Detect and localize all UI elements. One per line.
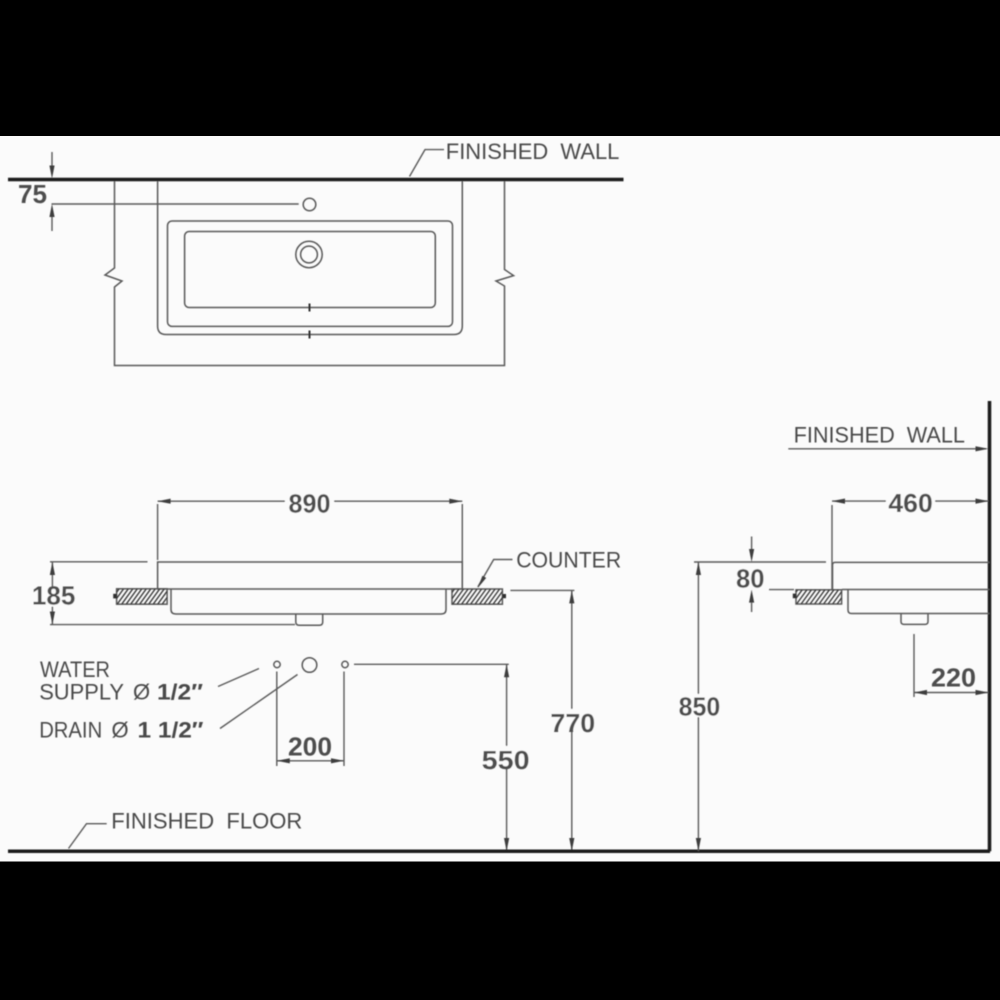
basin bowl (front) [171,590,446,615]
counter section hatch left (front) [113,589,167,604]
svg-text:75: 75 [18,179,47,209]
dimension 220 (drain offset from wall) [914,663,989,696]
dimension 185 (rim to drain depth) [29,562,295,625]
basin bowl edge (plan) [185,232,436,308]
svg-text:460: 460 [888,488,932,518]
sink profile (side) [833,562,990,613]
drain stub (front) [296,614,323,625]
water supply hole right (front) [342,661,348,667]
label WATER SUPPLY with leader [39,657,259,705]
label FINISHED WALL (plan) with leader [410,139,620,177]
sink rim slab (front) [158,562,463,589]
label DRAIN with leader [39,675,297,743]
label COUNTER with leader [478,548,621,589]
svg-text:SUPPLY: SUPPLY [39,680,124,705]
counter section hatch (side) [793,590,842,604]
letterbox bottom bar [0,862,1000,1000]
svg-text:FINISHED WALL: FINISHED WALL [446,139,620,164]
svg-text:550: 550 [482,745,530,775]
finished wall line (plan) [8,178,624,182]
svg-text:COUNTER: COUNTER [516,548,621,573]
dimension 550 (supply height) [354,664,531,851]
svg-text:FINISHED WALL: FINISHED WALL [794,422,965,447]
dimension 200 (supply spacing) [277,672,344,767]
svg-text:200: 200 [288,732,332,762]
sink rim inner edge (plan) [168,221,453,326]
center ticks (plan) [309,304,311,339]
dimension 80 (rim above counter) [694,537,826,613]
counter section hatch right (front) [452,589,506,604]
drain hole (front) [302,658,317,673]
svg-text:1/2″: 1/2″ [157,680,204,705]
water supply hole left (front) [274,661,280,667]
finished floor line [8,850,990,854]
label FINISHED FLOOR with leader [69,808,303,848]
letterbox top bar [0,0,1000,136]
svg-text:Ø: Ø [133,680,150,705]
svg-text:1 1/2″: 1 1/2″ [138,718,205,743]
drain stub (side) [901,614,928,625]
svg-text:80: 80 [736,564,765,594]
svg-text:850: 850 [679,692,721,722]
sink outer rim (plan) [158,181,463,335]
svg-text:FINISHED FLOOR: FINISHED FLOOR [111,808,302,833]
drain (plan) double circle [296,241,322,267]
counter outline (plan) with break zigzags [105,181,514,366]
dimension 890 (sink width) [158,489,463,588]
svg-text:Ø: Ø [112,718,129,743]
svg-text:220: 220 [931,663,976,693]
dimension 770 (counter height) [510,590,597,851]
label FINISHED WALL (side) with underline and arrow [788,422,988,451]
svg-text:DRAIN: DRAIN [39,718,102,743]
dimension 850 (rim height) [674,562,724,851]
drain pipe extension (side) [913,634,915,697]
faucet hole (plan) [303,198,316,211]
svg-text:185: 185 [32,581,76,611]
svg-text:770: 770 [550,708,595,738]
svg-text:WATER: WATER [40,657,110,682]
dimension 75 (faucet offset from wall) [18,152,299,231]
dimension 460 (sink depth) [832,488,989,589]
svg-text:890: 890 [289,489,331,519]
finished wall line (side) [988,401,992,851]
